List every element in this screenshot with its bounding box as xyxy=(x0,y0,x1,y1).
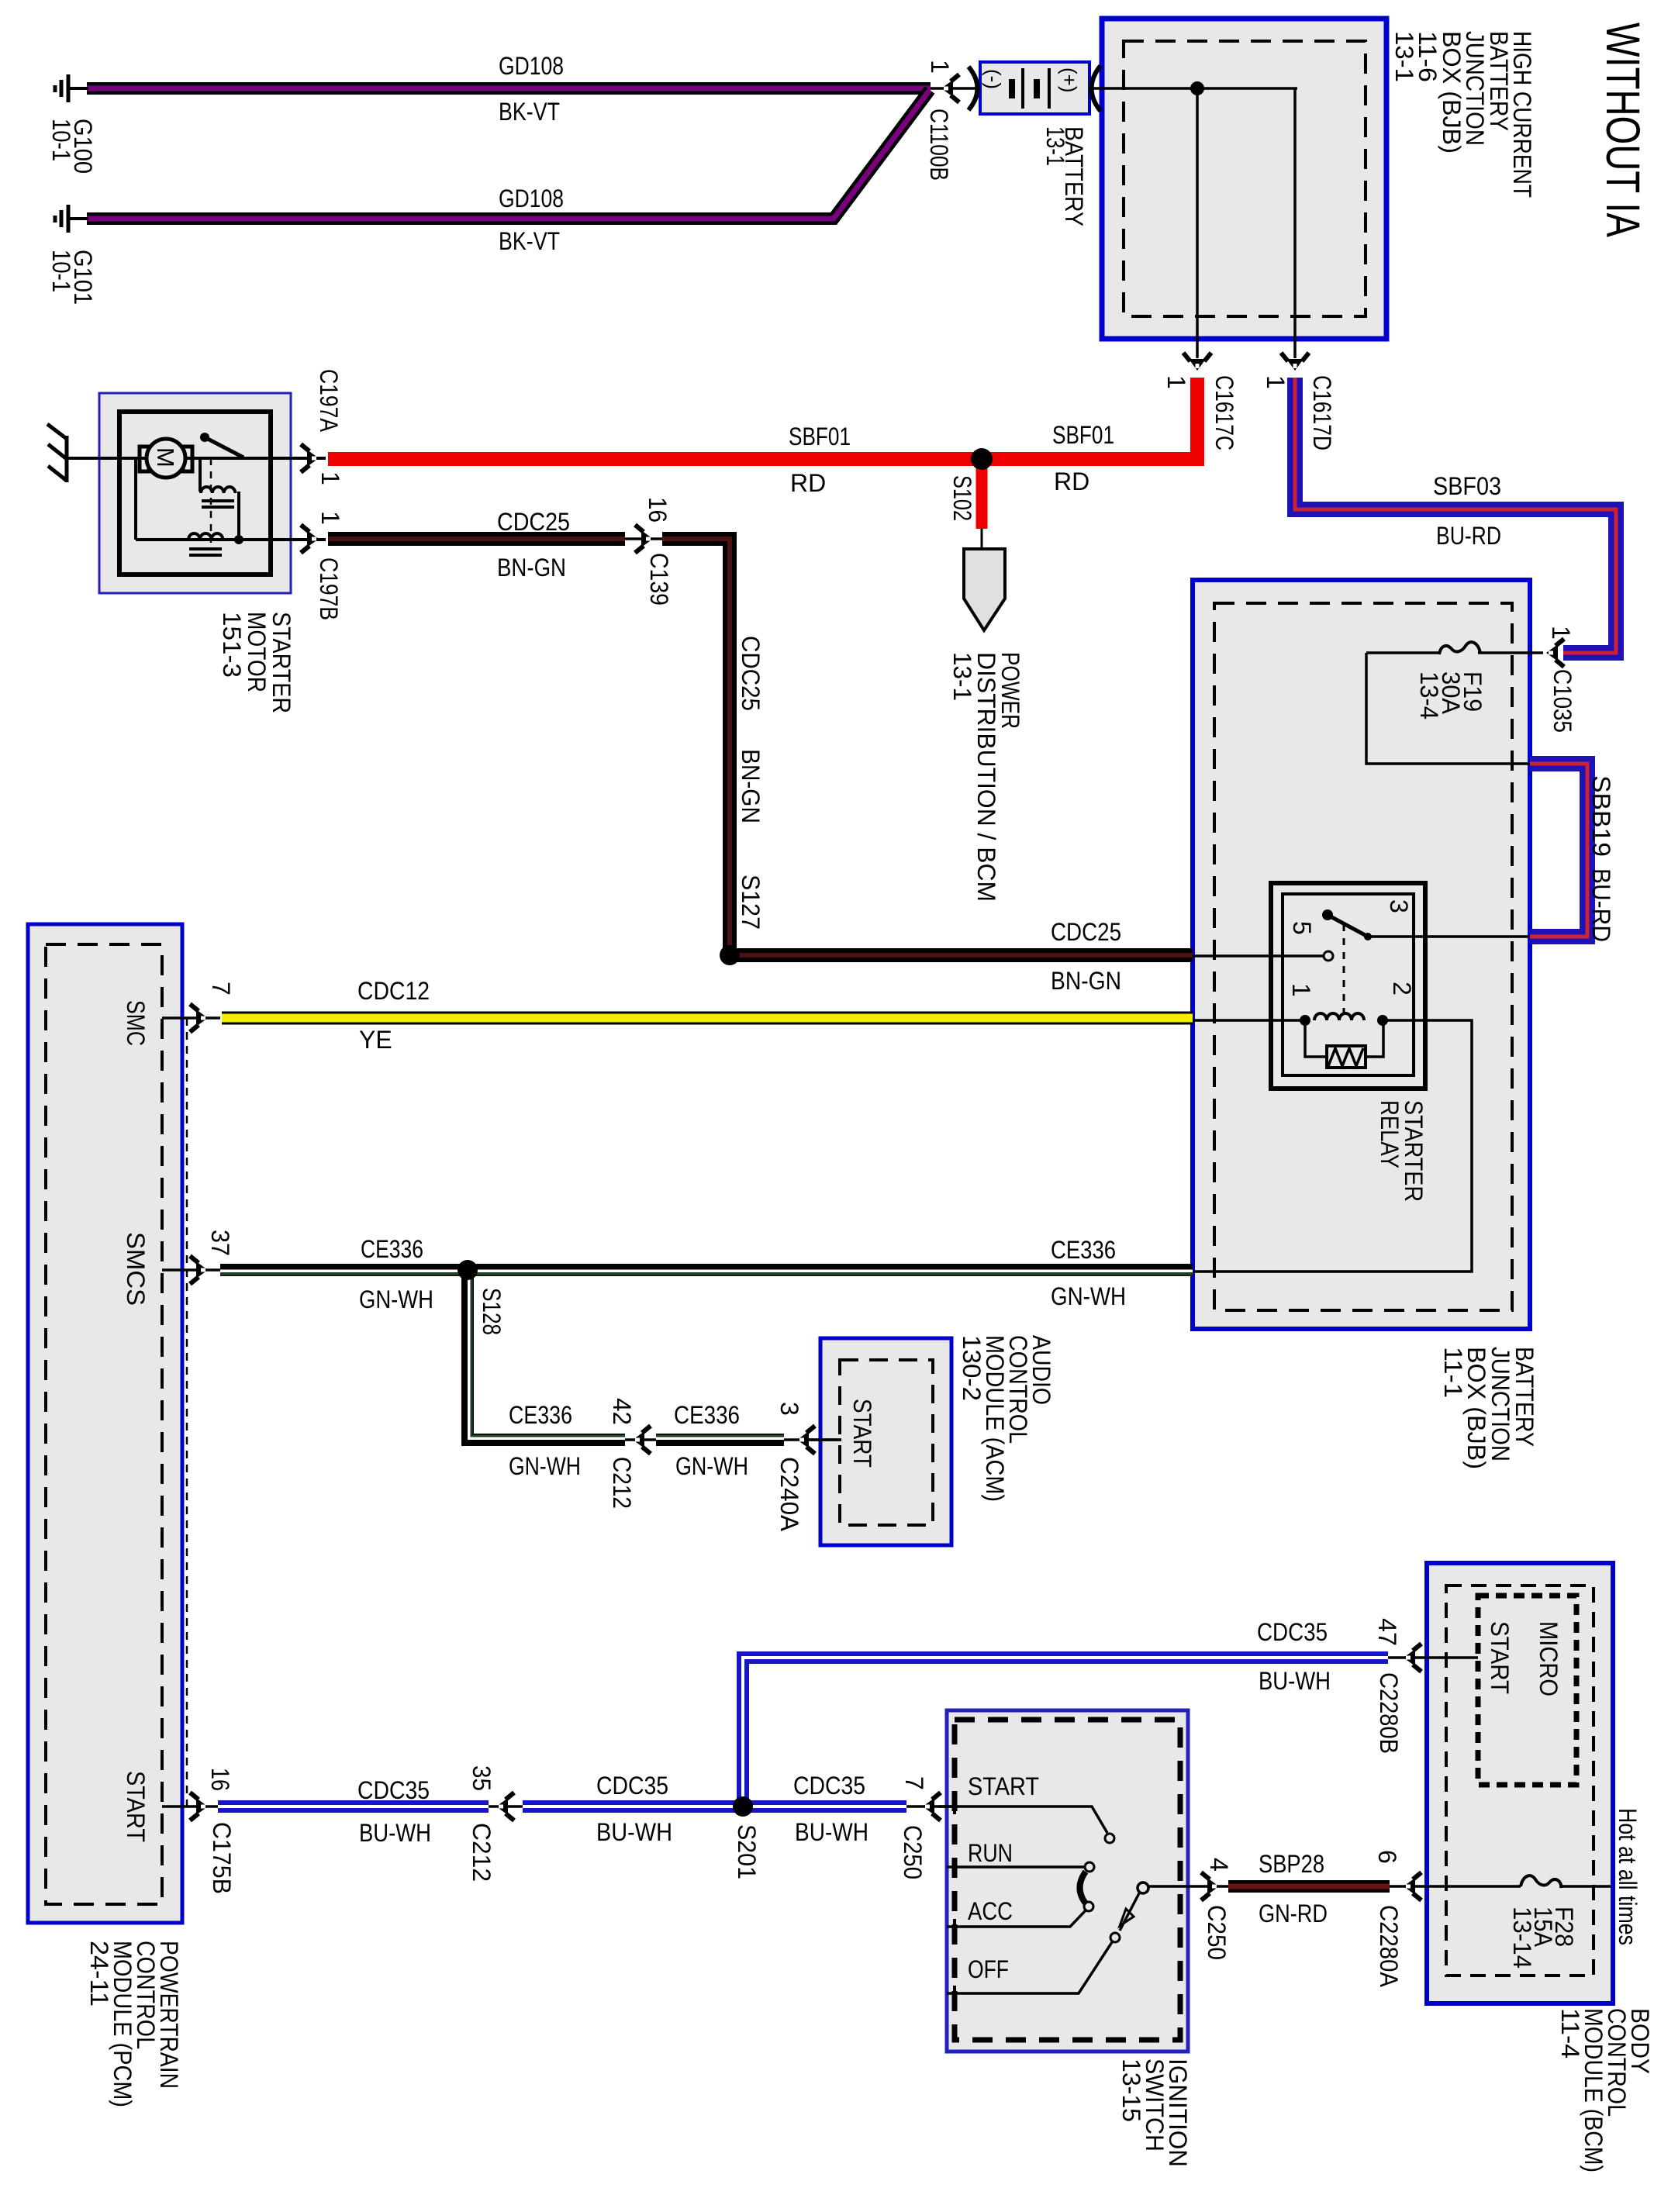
svg-text:1: 1 xyxy=(926,60,954,74)
svg-text:CDC35: CDC35 xyxy=(357,1776,430,1804)
svg-text:RD: RD xyxy=(1054,468,1089,495)
svg-text:7: 7 xyxy=(207,982,235,996)
svg-text:CDC12: CDC12 xyxy=(357,977,430,1005)
svg-text:35: 35 xyxy=(468,1765,496,1791)
svg-text:C1035: C1035 xyxy=(1549,669,1576,733)
svg-text:1: 1 xyxy=(1287,983,1315,997)
svg-text:C250: C250 xyxy=(1203,1905,1231,1960)
svg-text:SBF03: SBF03 xyxy=(1433,472,1501,500)
svg-text:SBF01: SBF01 xyxy=(789,423,851,450)
svg-text:151-3: 151-3 xyxy=(218,612,246,678)
splice S128 xyxy=(458,1260,478,1280)
relay coil xyxy=(1193,1019,1305,1022)
svg-text:CDC35: CDC35 xyxy=(596,1772,668,1800)
solenoid coil 1 xyxy=(201,487,235,493)
svg-text:C212: C212 xyxy=(468,1823,496,1882)
splice S102 xyxy=(971,448,993,470)
wire SBF03 BU-RD C1617D xyxy=(1295,378,1616,653)
svg-text:1: 1 xyxy=(316,511,344,525)
svg-text:GN-WH: GN-WH xyxy=(359,1285,433,1313)
svg-text:BU-WH: BU-WH xyxy=(359,1819,431,1847)
svg-text:RUN: RUN xyxy=(968,1839,1013,1867)
svg-text:13-15: 13-15 xyxy=(1117,2058,1145,2122)
svg-text:11-4: 11-4 xyxy=(1556,2008,1584,2058)
ignition switch pin ticks xyxy=(953,1799,956,1814)
svg-text:C240A: C240A xyxy=(775,1457,803,1532)
relay coil resistor xyxy=(1305,1020,1327,1057)
wire SBB19 BU-RD loop xyxy=(1530,764,1587,937)
wire down to C1617C with arrow xyxy=(1196,88,1199,358)
solenoid coil 2 xyxy=(188,533,223,540)
svg-text:S102: S102 xyxy=(948,475,976,521)
ignition switch RUN line xyxy=(947,1865,1085,1869)
svg-text:START: START xyxy=(1486,1621,1514,1694)
ground G101 xyxy=(55,205,88,233)
svg-text:CDC25: CDC25 xyxy=(1051,918,1121,946)
svg-text:RELAY: RELAY xyxy=(1376,1100,1404,1168)
relay box xyxy=(1271,883,1425,1089)
PCM box xyxy=(28,924,187,1923)
splice S127 xyxy=(720,945,740,965)
svg-text:CDC35: CDC35 xyxy=(1257,1618,1328,1646)
svg-text:1: 1 xyxy=(316,471,344,485)
wire CDC35 BU-WH from PCM START to C212 xyxy=(218,1800,489,1813)
wire SBP28 GN-RD xyxy=(1228,1880,1390,1893)
svg-text:YE: YE xyxy=(359,1026,392,1054)
relay dashed actuator line xyxy=(1343,924,1345,1017)
svg-text:GN-WH: GN-WH xyxy=(675,1452,748,1480)
fuse box path to SBB19 xyxy=(1366,653,1530,764)
svg-text:BU-WH: BU-WH xyxy=(1259,1667,1331,1695)
svg-text:BU-RD: BU-RD xyxy=(1587,868,1615,942)
ground G100 xyxy=(55,74,88,102)
ignition switch START line xyxy=(938,1807,1107,1833)
starter motor internals xyxy=(136,439,326,543)
splice S201 xyxy=(733,1796,753,1817)
ignition switch ACC line xyxy=(947,1910,1086,1927)
wire GD108 BK-VT from G100 xyxy=(87,82,931,95)
svg-text:WITHOUT IA: WITHOUT IA xyxy=(1597,22,1649,237)
BCM box xyxy=(1427,1563,1613,2003)
wire CDC12 YE from PCM SMC to relay coil xyxy=(222,1012,1193,1025)
svg-text:C139: C139 xyxy=(645,553,673,606)
svg-text:GN-WH: GN-WH xyxy=(509,1452,581,1480)
svg-text:CE336: CE336 xyxy=(361,1235,423,1263)
relay contact 3 line xyxy=(1370,935,1530,938)
svg-text:CE336: CE336 xyxy=(1051,1236,1116,1264)
svg-text:C197B: C197B xyxy=(315,557,343,620)
svg-text:BK-VT: BK-VT xyxy=(499,98,560,126)
svg-text:GD108: GD108 xyxy=(499,52,564,80)
svg-text:10-1: 10-1 xyxy=(47,119,75,161)
svg-text:130-2: 130-2 xyxy=(958,1335,986,1401)
wire CE336 GN-WH branch from S128 to C212 xyxy=(468,1270,625,1440)
connector C1100B line and arrow xyxy=(931,87,980,90)
fuse F19 xyxy=(1478,651,1543,654)
svg-text:1: 1 xyxy=(1162,375,1190,389)
ignition switch box xyxy=(947,1710,1188,2052)
wire CE336 GN-WH from C212 to C240A xyxy=(656,1434,784,1446)
wire CE336 GN-WH from PCM SMCS to BJB xyxy=(220,1264,1193,1276)
svg-text:SMC: SMC xyxy=(122,1000,150,1046)
svg-text:(+): (+) xyxy=(1058,67,1081,93)
power distribution flag xyxy=(964,549,1005,630)
svg-text:42: 42 xyxy=(608,1398,636,1425)
starter motor ground xyxy=(47,424,140,482)
relay contact 5 xyxy=(1193,954,1324,958)
svg-text:C212: C212 xyxy=(608,1457,636,1509)
relay pin2 path to CE336 xyxy=(1193,1020,1472,1272)
svg-text:GN-WH: GN-WH xyxy=(1051,1282,1126,1310)
svg-text:1: 1 xyxy=(1547,626,1575,640)
relay lever xyxy=(1322,909,1333,920)
svg-text:START: START xyxy=(122,1771,150,1842)
wire CDC25 BN-GN from starter motor xyxy=(328,532,625,546)
svg-text:BN-GN: BN-GN xyxy=(497,554,566,581)
svg-text:CE336: CE336 xyxy=(509,1401,572,1429)
svg-text:C1617C: C1617C xyxy=(1210,375,1238,450)
svg-text:24-11: 24-11 xyxy=(85,1941,113,2007)
svg-text:M: M xyxy=(152,447,179,468)
svg-text:SBB19: SBB19 xyxy=(1587,775,1615,857)
connector C139 xyxy=(625,537,662,540)
svg-text:4: 4 xyxy=(1205,1858,1233,1872)
svg-text:SBF01: SBF01 xyxy=(1052,421,1114,449)
svg-text:MICRO: MICRO xyxy=(1535,1621,1562,1696)
fuse F28 xyxy=(1521,1876,1562,1888)
svg-text:10-1: 10-1 xyxy=(47,250,75,292)
connector C250 4 xyxy=(1148,1885,1228,1888)
ignition switch lever with arrow xyxy=(1120,1892,1140,1931)
wire SBF01 RD vertical C1617C xyxy=(328,378,1197,459)
starter motor box xyxy=(99,393,291,593)
svg-text:13-14: 13-14 xyxy=(1508,1907,1536,1969)
connector C197A xyxy=(301,444,319,472)
svg-text:C250: C250 xyxy=(899,1825,927,1879)
wire CDC35 BU-WH from S201 up to BCM pin 47 xyxy=(743,1658,1388,1807)
svg-text:BK-VT: BK-VT xyxy=(499,227,560,255)
ignition switch OFF line xyxy=(947,1942,1112,1993)
svg-text:13-1: 13-1 xyxy=(1390,31,1418,82)
battery junction box (BJB) 11-1 xyxy=(1193,580,1530,1329)
svg-text:ACC: ACC xyxy=(968,1897,1013,1925)
wire CDC35 BU-WH from C212 to S201 to C250 xyxy=(523,1800,906,1813)
svg-text:13-4: 13-4 xyxy=(1415,671,1443,720)
svg-text:BN-GN: BN-GN xyxy=(1051,967,1121,995)
svg-text:C1100B: C1100B xyxy=(925,109,953,181)
ACM pin line xyxy=(806,1438,841,1441)
svg-text:16: 16 xyxy=(206,1768,234,1791)
svg-text:BU-RD: BU-RD xyxy=(1436,522,1501,550)
svg-text:Hot at all times: Hot at all times xyxy=(1614,1808,1642,1945)
svg-text:CDC35: CDC35 xyxy=(793,1772,865,1800)
svg-text:2: 2 xyxy=(1388,982,1416,996)
PCM pin SMC 7 xyxy=(162,1016,220,1020)
svg-text:CDC25: CDC25 xyxy=(737,636,765,711)
high current battery junction box (BJB) 11-6 13-1 xyxy=(1102,19,1386,339)
svg-text:C197A: C197A xyxy=(315,369,343,433)
svg-text:1: 1 xyxy=(1262,375,1290,389)
connector C2280B 47 xyxy=(1388,1656,1478,1659)
svg-text:(-): (-) xyxy=(982,69,1005,89)
connector C250 7 xyxy=(906,1805,955,1808)
battery B1 internals xyxy=(1089,87,1297,90)
svg-text:S128: S128 xyxy=(478,1288,506,1335)
connector C212 35 xyxy=(489,1805,523,1808)
connector C197B xyxy=(301,525,319,553)
svg-text:11-1: 11-1 xyxy=(1439,1347,1467,1398)
svg-text:GN-RD: GN-RD xyxy=(1259,1900,1328,1927)
svg-text:SBP28: SBP28 xyxy=(1259,1850,1324,1878)
svg-text:CE336: CE336 xyxy=(674,1401,740,1429)
svg-text:C2280A: C2280A xyxy=(1375,1905,1403,1988)
svg-text:13-1: 13-1 xyxy=(948,652,976,701)
svg-text:37: 37 xyxy=(206,1230,234,1256)
connector C240A 3 xyxy=(784,1438,841,1441)
svg-text:GD108: GD108 xyxy=(499,185,564,212)
connector C212 42 xyxy=(625,1438,656,1441)
svg-text:7: 7 xyxy=(900,1776,928,1790)
svg-text:S201: S201 xyxy=(733,1824,761,1879)
wire SBF01 RD stub to S102 xyxy=(976,459,988,529)
svg-text:6: 6 xyxy=(1373,1850,1401,1864)
BCM micro inner box xyxy=(1478,1596,1576,1785)
svg-text:SMCS: SMCS xyxy=(122,1232,150,1306)
svg-text:STARTER: STARTER xyxy=(268,612,295,713)
battery connector arcs xyxy=(969,67,978,110)
ACM box xyxy=(820,1338,951,1545)
PCM pin SMCS 37 xyxy=(162,1268,220,1272)
wire GD108 BK-VT from G101 xyxy=(87,90,930,219)
connector C2280A 6 xyxy=(1390,1885,1521,1888)
wire CDC25 BN-GN from S127 to BJB xyxy=(730,948,1193,962)
wire down to C1617D with arrow xyxy=(1293,88,1297,358)
svg-text:5: 5 xyxy=(1288,921,1316,935)
connector C1035 1 xyxy=(1546,639,1564,667)
svg-text:START: START xyxy=(848,1399,876,1468)
ignition switch RUN-ACC arc xyxy=(1080,1872,1086,1903)
svg-text:RD: RD xyxy=(790,469,826,497)
svg-text:BU-WH: BU-WH xyxy=(795,1818,868,1846)
svg-text:BN-GN: BN-GN xyxy=(737,749,765,823)
svg-text:START: START xyxy=(968,1772,1039,1800)
PCM pin START 16 xyxy=(162,1805,218,1808)
svg-text:C1617D: C1617D xyxy=(1308,375,1336,450)
pcm boundary thin dashed line xyxy=(186,1018,188,1807)
svg-text:16: 16 xyxy=(644,497,672,523)
starter solenoid switch lever xyxy=(200,433,209,442)
battery box xyxy=(980,62,1089,114)
svg-text:MOTOR: MOTOR xyxy=(243,612,271,692)
svg-text:S127: S127 xyxy=(737,875,765,930)
svg-text:3: 3 xyxy=(775,1402,803,1416)
svg-text:C175B: C175B xyxy=(208,1822,236,1894)
svg-text:47: 47 xyxy=(1373,1618,1401,1646)
svg-text:BU-WH: BU-WH xyxy=(596,1818,672,1846)
svg-text:13-1: 13-1 xyxy=(1041,126,1069,166)
junction node in high current BJB xyxy=(1190,81,1204,95)
svg-text:CDC25: CDC25 xyxy=(497,508,570,536)
svg-text:OFF: OFF xyxy=(968,1955,1009,1983)
svg-text:C2280B: C2280B xyxy=(1375,1672,1403,1754)
svg-text:3: 3 xyxy=(1385,899,1413,913)
